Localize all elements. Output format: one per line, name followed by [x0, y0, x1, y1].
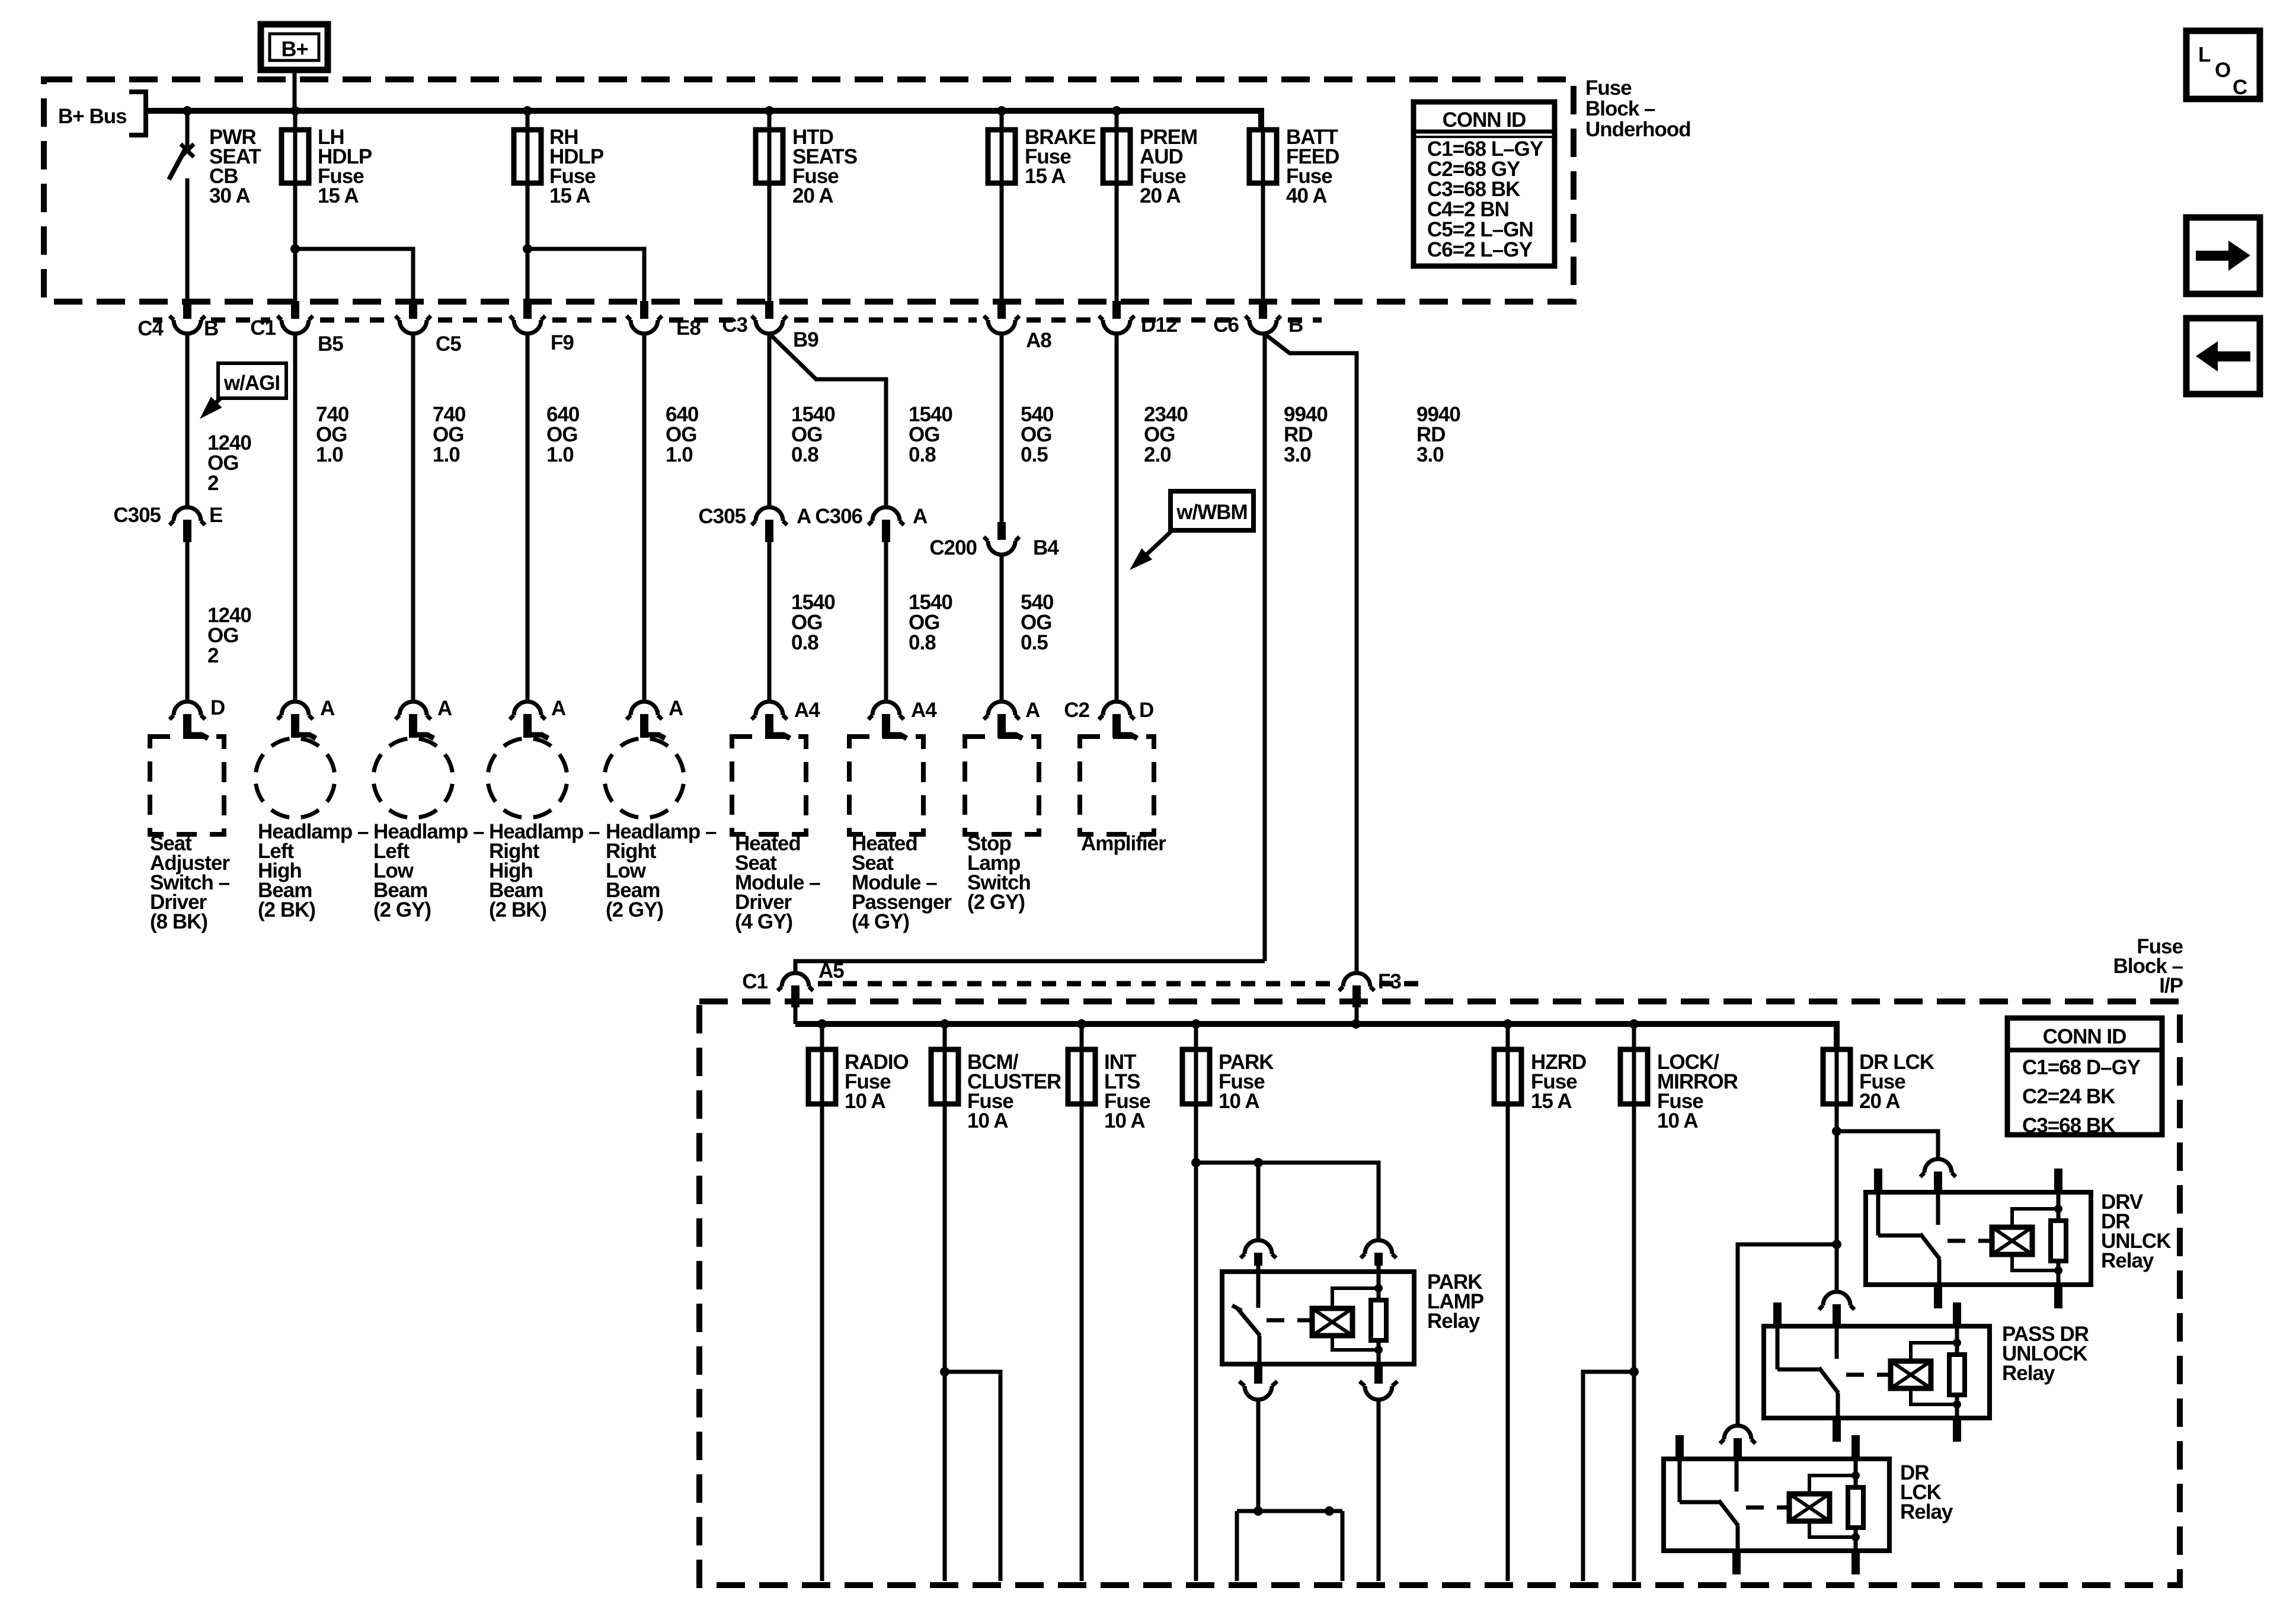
svg-text:C1: C1	[742, 970, 768, 993]
svg-text:C305: C305	[698, 505, 746, 528]
svg-text:A: A	[551, 697, 566, 720]
svg-text:20 A: 20 A	[1140, 184, 1181, 207]
svg-text:A: A	[320, 697, 335, 720]
svg-text:C5: C5	[436, 332, 461, 356]
svg-text:10 A: 10 A	[1657, 1109, 1698, 1132]
svg-text:10 A: 10 A	[1104, 1109, 1145, 1132]
svg-text:I/P: I/P	[2159, 974, 2183, 997]
svg-text:A: A	[1025, 699, 1040, 722]
svg-text:(2 GY): (2 GY)	[967, 891, 1025, 914]
svg-text:D12: D12	[1141, 313, 1178, 337]
svg-text:E: E	[209, 504, 222, 527]
svg-text:15 A: 15 A	[549, 184, 590, 207]
svg-text:A: A	[913, 505, 928, 528]
svg-text:0.5: 0.5	[1021, 443, 1048, 466]
svg-text:B4: B4	[1033, 536, 1059, 559]
svg-text:C3=68 BK: C3=68 BK	[2022, 1114, 2115, 1137]
svg-text:Block –: Block –	[1585, 97, 1655, 120]
svg-text:w/AGI: w/AGI	[223, 372, 280, 395]
svg-text:1.0: 1.0	[433, 443, 460, 466]
svg-text:(8 BK): (8 BK)	[150, 910, 207, 933]
svg-text:15 A: 15 A	[318, 184, 359, 207]
svg-text:A: A	[437, 697, 452, 720]
svg-text:30 A: 30 A	[209, 184, 250, 207]
svg-text:0.8: 0.8	[909, 631, 936, 654]
svg-text:A4: A4	[794, 699, 820, 722]
svg-text:Relay: Relay	[1900, 1500, 1953, 1523]
svg-text:10 A: 10 A	[1219, 1090, 1259, 1113]
svg-text:D: D	[1139, 699, 1153, 722]
svg-text:F9: F9	[551, 331, 574, 354]
svg-text:B+: B+	[281, 37, 308, 61]
svg-text:w/WBM: w/WBM	[1176, 501, 1247, 524]
svg-text:0.5: 0.5	[1021, 631, 1048, 654]
svg-text:B5: B5	[318, 332, 343, 356]
svg-text:C305: C305	[113, 504, 161, 527]
svg-text:0.8: 0.8	[791, 631, 818, 654]
svg-text:CONN ID: CONN ID	[2043, 1025, 2126, 1048]
svg-text:C6: C6	[1213, 313, 1239, 337]
svg-text:2: 2	[207, 472, 219, 495]
svg-text:B: B	[1288, 313, 1303, 337]
svg-text:C2: C2	[1064, 699, 1089, 722]
svg-text:3.0: 3.0	[1416, 443, 1444, 466]
svg-text:Underhood: Underhood	[1585, 118, 1691, 141]
svg-text:Relay: Relay	[2101, 1249, 2154, 1272]
svg-text:A8: A8	[1026, 329, 1051, 352]
svg-text:15 A: 15 A	[1025, 165, 1066, 188]
svg-text:40 A: 40 A	[1286, 184, 1327, 207]
svg-text:3.0: 3.0	[1284, 443, 1311, 466]
svg-text:C3: C3	[722, 313, 747, 337]
svg-text:(2 GY): (2 GY)	[606, 898, 663, 921]
svg-text:L: L	[2198, 43, 2211, 66]
svg-text:A4: A4	[911, 699, 937, 722]
svg-text:B+ Bus: B+ Bus	[58, 105, 127, 128]
svg-text:D: D	[210, 696, 225, 719]
svg-text:C4: C4	[137, 317, 164, 340]
svg-text:(2 BK): (2 BK)	[258, 898, 315, 921]
svg-text:C: C	[2233, 76, 2247, 99]
svg-text:B: B	[204, 317, 218, 340]
svg-text:CONN ID: CONN ID	[1443, 108, 1526, 132]
svg-text:B9: B9	[793, 328, 818, 351]
svg-text:C1=68 D–GY: C1=68 D–GY	[2022, 1056, 2141, 1079]
svg-text:2.0: 2.0	[1144, 443, 1171, 466]
svg-text:10 A: 10 A	[967, 1109, 1008, 1132]
svg-text:1.0: 1.0	[316, 443, 343, 466]
svg-text:C2=24 BK: C2=24 BK	[2022, 1085, 2115, 1108]
svg-text:Relay: Relay	[1427, 1310, 1480, 1333]
svg-text:1.0: 1.0	[666, 443, 693, 466]
svg-text:Amplifier: Amplifier	[1081, 832, 1166, 855]
svg-text:A: A	[797, 505, 811, 528]
svg-text:Relay: Relay	[2002, 1362, 2055, 1385]
svg-text:0.8: 0.8	[791, 443, 818, 466]
svg-text:20 A: 20 A	[792, 184, 833, 207]
svg-text:(2 GY): (2 GY)	[373, 898, 431, 921]
svg-text:C306: C306	[815, 505, 862, 528]
svg-text:C6=2 L–GY: C6=2 L–GY	[1427, 238, 1532, 261]
svg-text:Fuse: Fuse	[1585, 76, 1632, 100]
svg-text:10 A: 10 A	[845, 1090, 885, 1113]
svg-text:A5: A5	[818, 959, 844, 982]
svg-text:E8: E8	[676, 316, 701, 340]
svg-text:2: 2	[207, 644, 219, 667]
svg-text:20 A: 20 A	[1859, 1090, 1900, 1113]
svg-text:(4 GY): (4 GY)	[735, 910, 792, 933]
svg-text:C1: C1	[250, 316, 276, 340]
svg-text:O: O	[2215, 59, 2230, 82]
svg-text:(2 BK): (2 BK)	[489, 898, 546, 921]
svg-text:0.8: 0.8	[909, 443, 936, 466]
svg-text:(4 GY): (4 GY)	[852, 910, 909, 933]
svg-text:C200: C200	[929, 536, 977, 559]
svg-text:F3: F3	[1378, 970, 1401, 993]
svg-text:1.0: 1.0	[546, 443, 574, 466]
svg-text:A: A	[669, 697, 683, 720]
svg-text:15 A: 15 A	[1531, 1090, 1572, 1113]
